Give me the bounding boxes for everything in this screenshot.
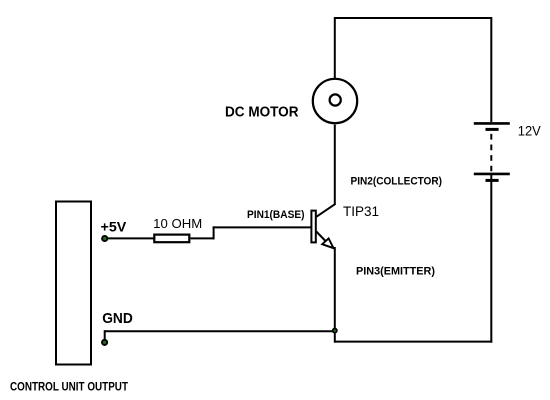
svg-text:GND: GND (102, 311, 133, 327)
wire jog vertical (213, 226, 215, 239)
node +5V junction dot (102, 236, 107, 241)
wire resistor to jog (191, 237, 215, 239)
transistor emitter diagonal (316, 232, 326, 242)
wire bottom rail junction to right (334, 341, 492, 343)
battery bottom cell long plate (474, 173, 510, 176)
svg-text:PIN2(COLLECTOR): PIN2(COLLECTOR) (351, 175, 443, 187)
svg-text:PIN1(BASE): PIN1(BASE) (247, 209, 305, 221)
svg-text:TIP31: TIP31 (343, 204, 379, 219)
resistor R1 10 OHM (154, 235, 189, 243)
transistor Q1 TIP31 base bar (311, 211, 315, 243)
node emitter/GND junction dot (333, 329, 337, 333)
battery bottom cell short plate (486, 179, 499, 182)
svg-text:DC MOTOR: DC MOTOR (225, 104, 299, 120)
svg-text:PIN3(EMITTER): PIN3(EMITTER) (356, 266, 435, 278)
transistor collector diagonal (316, 204, 335, 217)
svg-text:CONTROL UNIT OUTPUT: CONTROL UNIT OUTPUT (10, 380, 129, 394)
wire emitter vertical down to junction (334, 247, 336, 343)
wire motor top + top rail + right drop to battery (335, 18, 492, 122)
wire battery bottom to bottom rail (490, 180, 492, 342)
battery B1 top cell long plate (474, 122, 510, 125)
wire jog to base (213, 226, 311, 228)
svg-text:10 OHM: 10 OHM (153, 216, 202, 231)
battery dashed link (490, 134, 492, 171)
dc motor M1 outer circle (313, 79, 357, 123)
wire +5V dot to resistor (105, 237, 154, 239)
wire GND rail (105, 330, 336, 332)
dc motor inner circle (330, 94, 341, 105)
svg-text:+5V: +5V (101, 218, 127, 234)
control unit output box (56, 202, 91, 365)
battery top cell short plate (486, 128, 499, 131)
svg-text:12V: 12V (518, 123, 541, 138)
battery inter-plate stub (490, 174, 492, 181)
node GND dot (102, 340, 107, 345)
wire collector vertical (motor bottom to diagonal) (334, 125, 336, 205)
wire GND stub (104, 330, 106, 342)
transistor emitter arrowhead (322, 238, 333, 248)
